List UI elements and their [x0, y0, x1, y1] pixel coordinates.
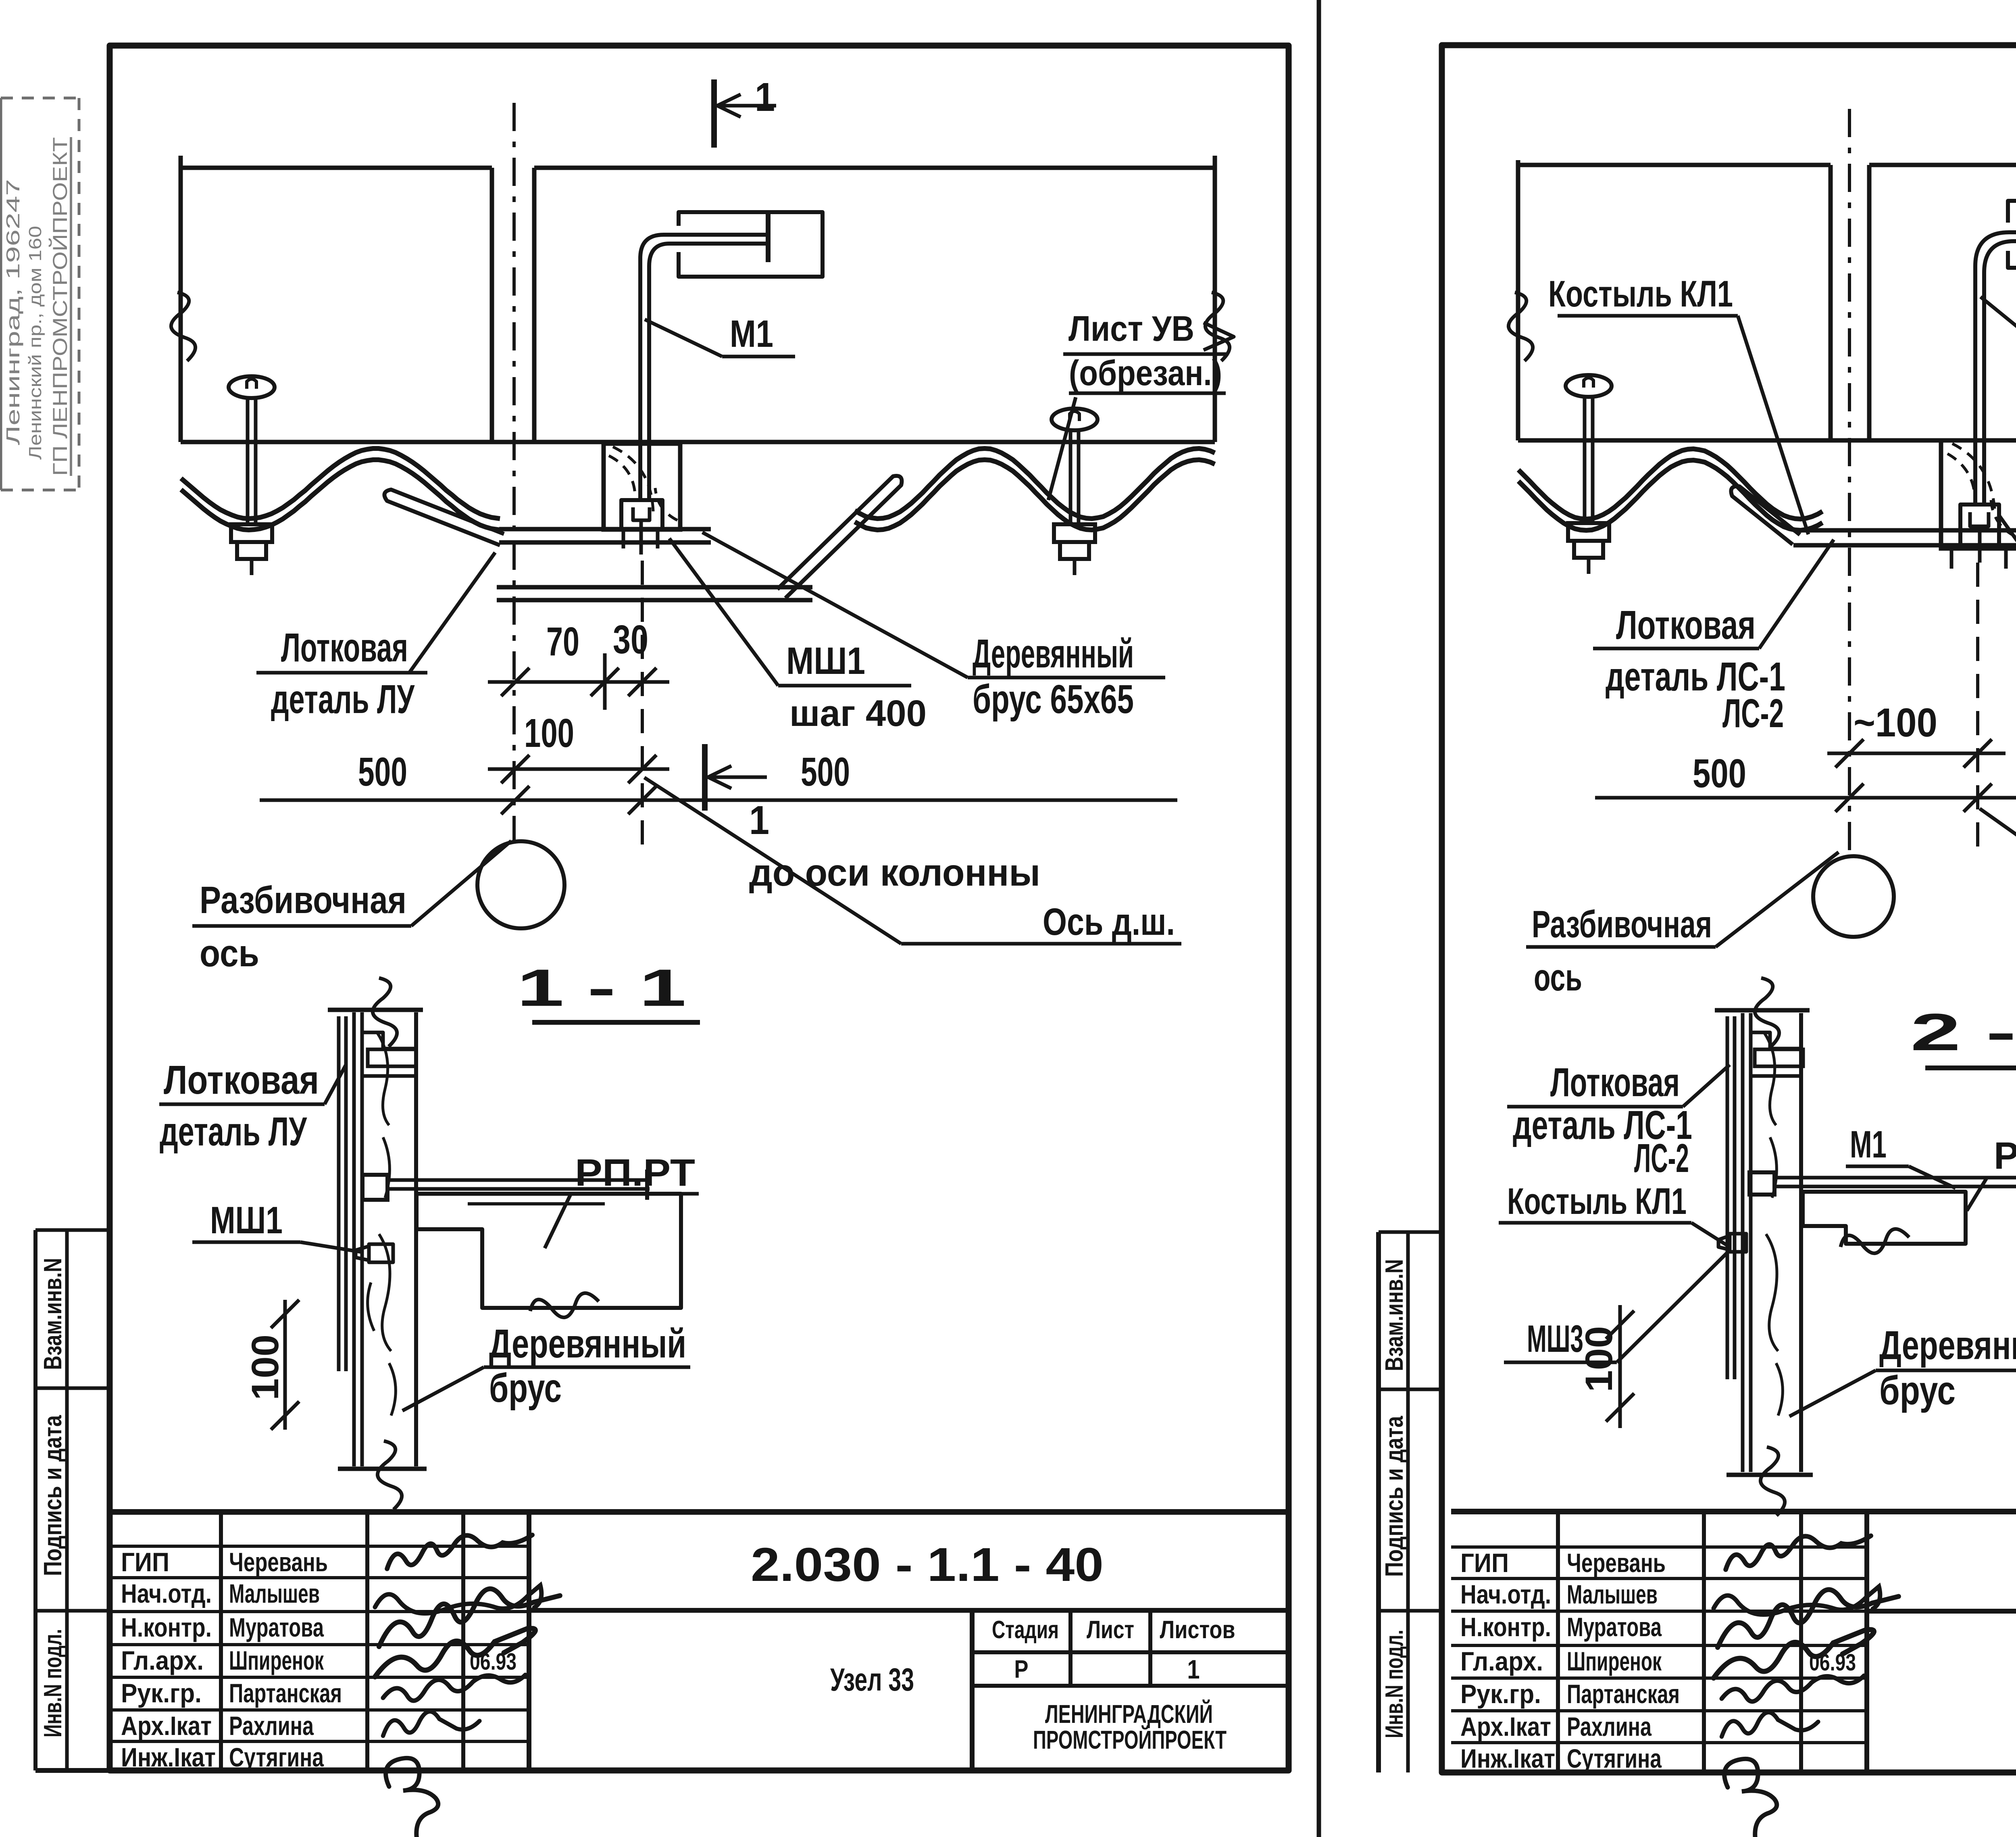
- svg-text:шаг 400: шаг 400: [789, 693, 927, 734]
- svg-text:Лотковая: Лотковая: [281, 625, 408, 670]
- svg-text:Нач.отд.: Нач.отд.: [121, 1578, 212, 1608]
- svg-text:Костыль КЛ1: Костыль КЛ1: [1548, 273, 1733, 315]
- svg-text:Партанская: Партанская: [229, 1678, 342, 1708]
- svg-text:деталь ЛУ: деталь ЛУ: [160, 1109, 307, 1154]
- svg-text:ГИП: ГИП: [1460, 1548, 1509, 1578]
- svg-text:Н.контр.: Н.контр.: [1460, 1612, 1551, 1642]
- svg-text:брус 65х65: брус 65х65: [973, 677, 1134, 722]
- svg-text:ПРОМСТРОЙПРОЕКТ: ПРОМСТРОЙПРОЕКТ: [1033, 1725, 1227, 1754]
- svg-text:70: 70: [546, 619, 579, 664]
- svg-text:1 - 1: 1 - 1: [517, 958, 686, 1017]
- svg-text:Малышев: Малышев: [229, 1578, 320, 1608]
- svg-text:Деревянный: Деревянный: [1879, 1323, 2016, 1368]
- svg-text:1: 1: [1187, 1655, 1200, 1684]
- svg-text:2 - 2: 2 - 2: [1910, 1003, 2016, 1061]
- svg-text:Муратова: Муратова: [1567, 1612, 1662, 1642]
- svg-text:М1: М1: [730, 313, 773, 355]
- svg-text:Инж.Iкат: Инж.Iкат: [1460, 1743, 1555, 1773]
- svg-text:ЛЕНИНГРАДСКИЙ: ЛЕНИНГРАДСКИЙ: [1045, 1699, 1213, 1729]
- svg-text:Н.контр.: Н.контр.: [121, 1612, 212, 1642]
- svg-text:Ленинский пр., дом 160: Ленинский пр., дом 160: [25, 226, 45, 460]
- svg-text:06.93: 06.93: [1809, 1649, 1856, 1676]
- svg-text:100: 100: [1578, 1326, 1620, 1392]
- svg-text:Рук.гр.: Рук.гр.: [1460, 1679, 1541, 1709]
- svg-text:Рахлина: Рахлина: [229, 1711, 314, 1741]
- svg-text:(обрезан.): (обрезан.): [1069, 353, 1222, 393]
- svg-text:100: 100: [524, 711, 574, 756]
- svg-text:Костыль КЛ1: Костыль КЛ1: [1507, 1181, 1687, 1222]
- svg-text:Лотковая: Лотковая: [1616, 603, 1756, 648]
- svg-text:ГИП: ГИП: [121, 1547, 169, 1577]
- svg-text:Сутягина: Сутягина: [229, 1742, 324, 1772]
- svg-text:МШ3: МШ3: [1527, 1318, 1583, 1360]
- svg-text:2.030 - 1.1 - 40: 2.030 - 1.1 - 40: [751, 1538, 1104, 1591]
- svg-text:Гл.арх.: Гл.арх.: [121, 1645, 204, 1675]
- svg-text:Рук.гр.: Рук.гр.: [121, 1678, 202, 1708]
- svg-text:Нач.отд.: Нач.отд.: [1460, 1579, 1551, 1609]
- svg-text:Черевань: Черевань: [229, 1547, 328, 1577]
- svg-text:Шпиренок: Шпиренок: [229, 1645, 324, 1675]
- svg-text:Деревянный: Деревянный: [973, 631, 1134, 676]
- svg-text:~100: ~100: [1854, 700, 1937, 745]
- svg-text:Взам.инв.N: Взам.инв.N: [39, 1258, 67, 1370]
- svg-text:Лотковая: Лотковая: [1550, 1060, 1680, 1105]
- svg-text:Муратова: Муратова: [229, 1612, 324, 1642]
- svg-text:ось: ось: [1534, 956, 1582, 999]
- svg-text:100: 100: [244, 1334, 287, 1400]
- svg-text:Малышев: Малышев: [1567, 1579, 1658, 1609]
- svg-text:ось: ось: [200, 932, 259, 975]
- svg-text:Ось д.ш.: Ось д.ш.: [1043, 901, 1175, 943]
- svg-text:ЛС-2: ЛС-2: [1634, 1136, 1689, 1181]
- svg-text:Лист: Лист: [1087, 1616, 1134, 1644]
- svg-text:Разбивочная: Разбивочная: [200, 879, 406, 922]
- svg-text:30: 30: [613, 617, 648, 662]
- svg-text:06.93: 06.93: [470, 1649, 516, 1675]
- svg-text:МШ1: МШ1: [210, 1199, 283, 1242]
- svg-text:Лист УВ: Лист УВ: [1068, 309, 1194, 348]
- svg-text:Арх.Iкат: Арх.Iкат: [121, 1711, 212, 1741]
- svg-text:Инв.N подл.: Инв.N подл.: [1381, 1630, 1408, 1738]
- svg-text:Инж.Iкат: Инж.Iкат: [121, 1742, 216, 1772]
- svg-text:500: 500: [1693, 751, 1746, 796]
- svg-text:Инв.N подл.: Инв.N подл.: [39, 1629, 67, 1737]
- svg-text:Стадия: Стадия: [992, 1616, 1059, 1644]
- svg-text:Шпиренок: Шпиренок: [1567, 1646, 1662, 1676]
- svg-text:P: P: [1014, 1656, 1028, 1683]
- svg-text:Взам.инв.N: Взам.инв.N: [1381, 1259, 1408, 1371]
- svg-text:брус: брус: [1879, 1368, 1956, 1413]
- svg-text:Подпись и дата: Подпись и дата: [39, 1415, 67, 1576]
- svg-text:деталь ЛУ: деталь ЛУ: [271, 677, 415, 722]
- svg-text:Сутягина: Сутягина: [1567, 1743, 1662, 1773]
- svg-text:МШ1: МШ1: [786, 640, 865, 682]
- svg-text:500: 500: [358, 749, 407, 794]
- svg-text:РТ.РП: РТ.РП: [1994, 1134, 2016, 1177]
- svg-text:Черевань: Черевань: [1567, 1548, 1666, 1578]
- svg-text:Партанская: Партанская: [1567, 1679, 1680, 1709]
- svg-text:Деревянный: Деревянный: [489, 1321, 686, 1366]
- svg-text:Гл.арх.: Гл.арх.: [1460, 1646, 1543, 1676]
- svg-text:1: 1: [755, 75, 775, 120]
- svg-text:Лотковая: Лотковая: [164, 1057, 319, 1103]
- svg-text:РП.РТ: РП.РТ: [575, 1151, 695, 1194]
- svg-text:Разбивочная: Разбивочная: [1532, 903, 1712, 946]
- svg-text:1: 1: [749, 798, 769, 843]
- svg-text:М1: М1: [1850, 1123, 1887, 1166]
- svg-text:Арх.Iкат: Арх.Iкат: [1460, 1712, 1551, 1741]
- svg-text:Узел 33: Узел 33: [830, 1662, 914, 1697]
- svg-text:Листов: Листов: [1160, 1616, 1235, 1644]
- svg-text:Ленинград, 196247: Ленинград, 196247: [2, 179, 23, 445]
- svg-text:Рахлина: Рахлина: [1567, 1712, 1652, 1741]
- svg-text:брус: брус: [489, 1366, 562, 1411]
- svg-text:ЛС-2: ЛС-2: [1722, 691, 1784, 736]
- svg-text:500: 500: [801, 749, 850, 794]
- svg-text:ГП ЛЕНПРОМСТРОЙПРОЕКТ: ГП ЛЕНПРОМСТРОЙПРОЕКТ: [48, 137, 71, 476]
- svg-text:Подпись и дата: Подпись и дата: [1381, 1416, 1408, 1577]
